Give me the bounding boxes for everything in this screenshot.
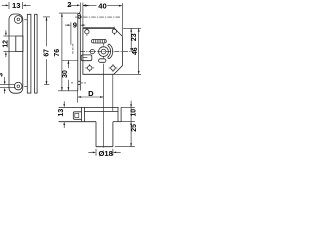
dimension 76 (faceplate length) bbox=[54, 13, 78, 91]
svg-text:76: 76 bbox=[54, 49, 61, 57]
dimension diameter 18 bbox=[88, 149, 120, 158]
curved slot around follower bbox=[108, 44, 113, 58]
svg-text:23: 23 bbox=[131, 33, 138, 41]
svg-text:40: 40 bbox=[98, 1, 106, 10]
svg-text:46: 46 bbox=[132, 47, 139, 55]
dimension 46 bbox=[132, 28, 140, 74]
faceplate front view outline bbox=[9, 14, 23, 93]
dimension 23 bbox=[130, 28, 138, 51]
case inner line bottom view bbox=[84, 110, 118, 112]
faceplate strip side view with screw hole bbox=[78, 12, 81, 91]
horizontal centerline y17 bbox=[75, 16, 120, 18]
svg-text:13: 13 bbox=[58, 109, 65, 117]
top screw lug right bbox=[112, 27, 116, 36]
dimension 13 bottom view bbox=[58, 101, 65, 128]
case top edge thick bbox=[83, 27, 114, 29]
bottom screw boss right bbox=[109, 64, 118, 73]
extension lines right of bar bbox=[115, 107, 135, 146]
latch bolt side view bbox=[81, 55, 92, 61]
svg-text:3: 3 bbox=[0, 73, 4, 77]
svg-text:25: 25 bbox=[131, 124, 138, 132]
svg-text:12: 12 bbox=[3, 40, 10, 48]
svg-text:2: 2 bbox=[67, 0, 71, 9]
top slot bbox=[91, 39, 106, 43]
slot below follower bbox=[99, 59, 106, 63]
top screw lug left bbox=[85, 27, 89, 36]
bottom screw boss left bbox=[85, 64, 94, 73]
dimension 12 (latch window height) bbox=[3, 30, 16, 57]
faceplate edge view strip 2 bbox=[35, 14, 38, 93]
extension line y74 right bbox=[114, 73, 141, 75]
svg-text:10: 10 bbox=[131, 109, 138, 117]
dimension 40 (case depth) bbox=[83, 1, 122, 36]
projection line follower axis bbox=[103, 43, 105, 47]
dimension 13 (faceplate width) bbox=[2, 1, 31, 10]
latch window bbox=[16, 36, 23, 52]
dimension 10 bbox=[130, 101, 137, 147]
projection line cylinder right bbox=[112, 75, 114, 112]
svg-text:30: 30 bbox=[62, 70, 69, 78]
dimension 3 (bottom) bbox=[0, 73, 15, 94]
top screw hole bbox=[14, 16, 22, 24]
bottom screw hole centerline bbox=[24, 85, 27, 87]
faceplate section bbox=[82, 107, 85, 121]
follower centerline bbox=[80, 50, 134, 52]
dimension 25 bbox=[130, 124, 138, 147]
side hole left of follower bbox=[90, 49, 94, 53]
side strip bottom hole bbox=[71, 81, 86, 84]
case rear cap bottom view bbox=[118, 107, 121, 121]
dimension 30 bbox=[62, 61, 78, 91]
svg-text:67: 67 bbox=[43, 49, 50, 57]
latch bolt tip bottom view bbox=[73, 112, 81, 120]
faceplate edge view strip 1 bbox=[27, 14, 31, 93]
extension line y28 right bbox=[123, 27, 141, 29]
svg-text:D: D bbox=[88, 89, 94, 98]
dimension D (backset) bbox=[78, 88, 104, 103]
bottom view top line bbox=[59, 106, 119, 108]
bottom screw hole bbox=[14, 82, 22, 90]
svg-text:Ø18: Ø18 bbox=[99, 149, 113, 158]
dimension 9 (backset of plate) bbox=[65, 21, 85, 45]
dimension 67 (hole spacing) bbox=[43, 17, 50, 85]
centerline x73.4 bbox=[72, 44, 74, 55]
cylinder bbox=[96, 122, 113, 147]
follower hub bbox=[99, 47, 109, 57]
svg-text:9: 9 bbox=[73, 21, 77, 30]
svg-text:13: 13 bbox=[12, 1, 20, 10]
top screw hole centerline bbox=[24, 19, 27, 21]
lock case outline bbox=[83, 28, 123, 74]
bottom view bottom line bbox=[59, 121, 122, 123]
dimension 2 (plate thickness) bbox=[67, 0, 88, 28]
